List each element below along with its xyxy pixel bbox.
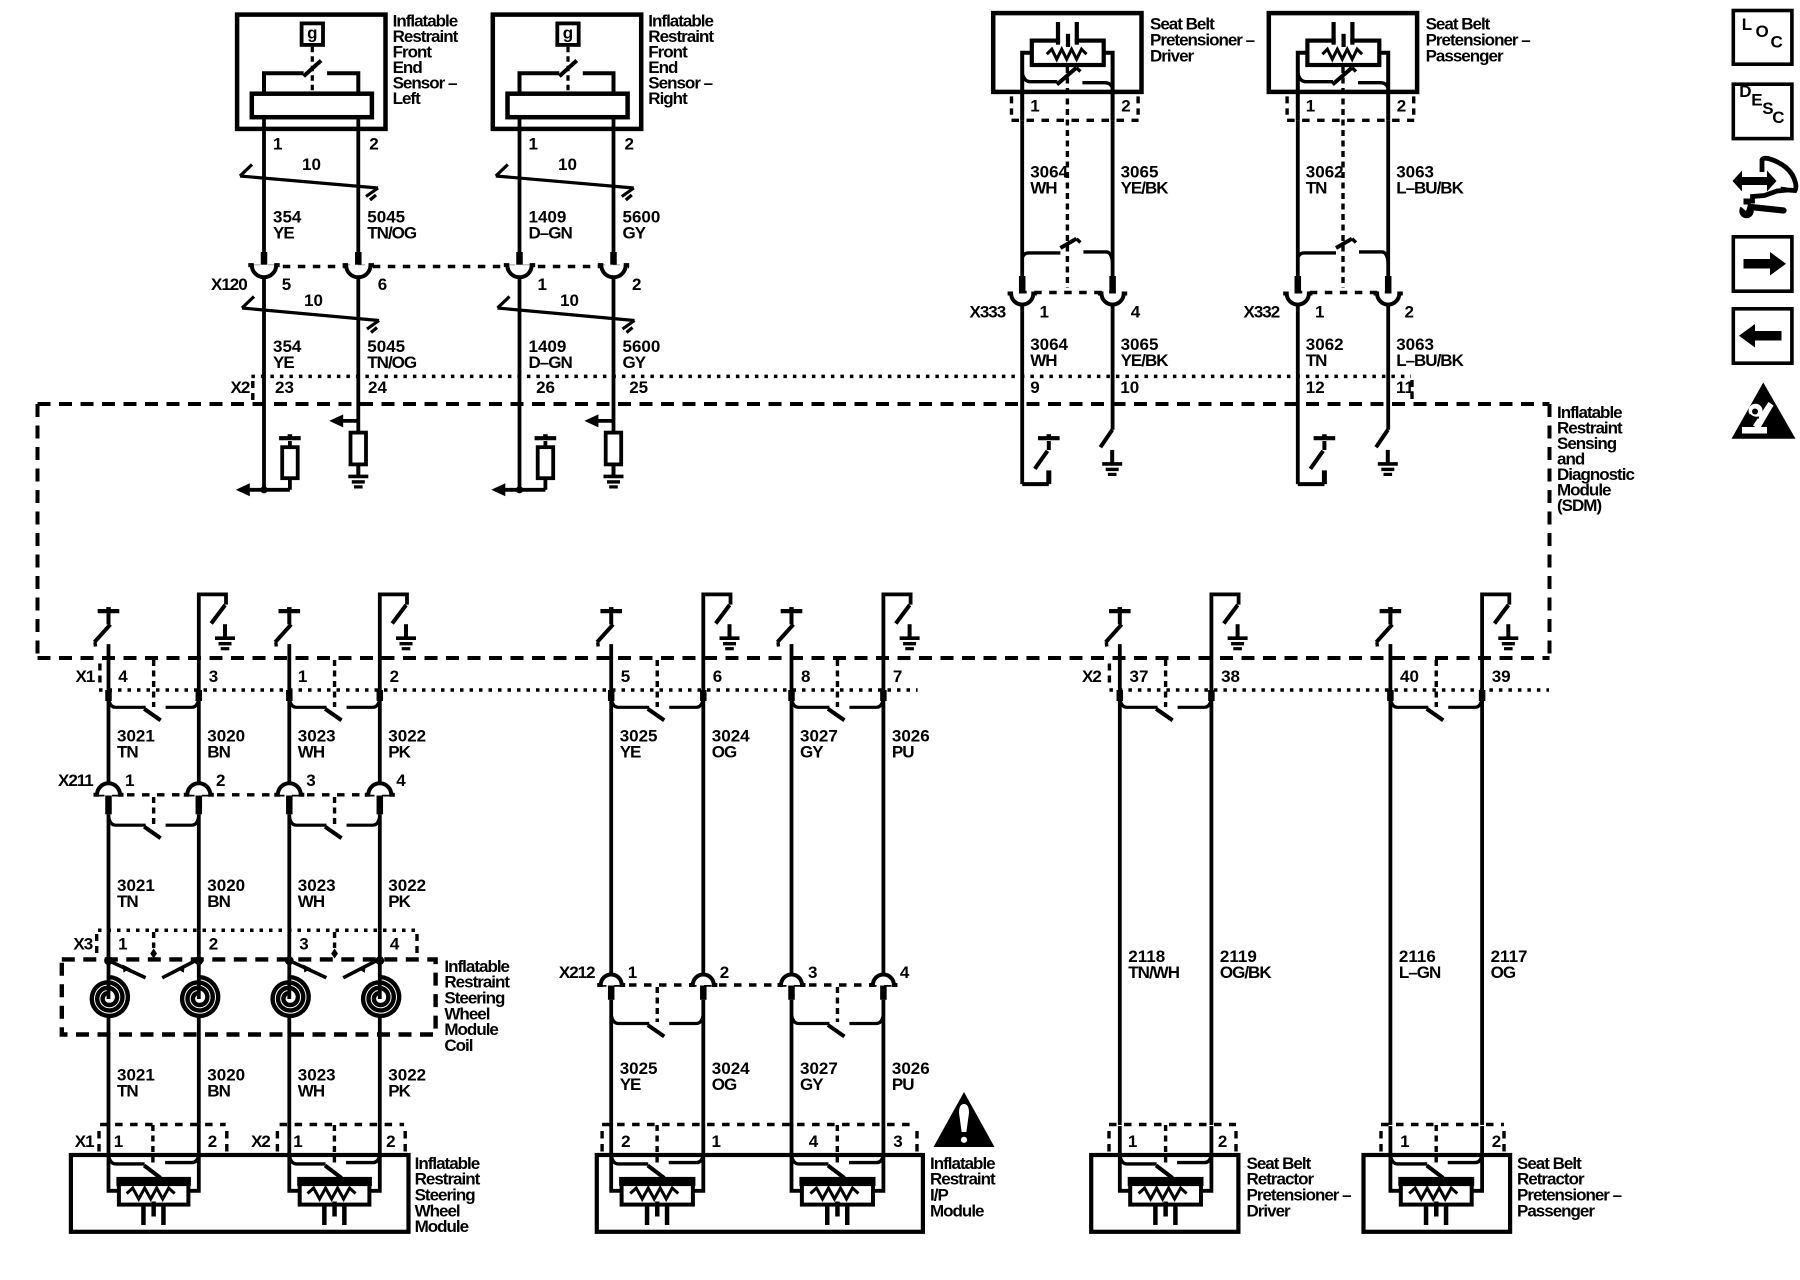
SDM sensor feed wire (odd pin): [518, 404, 522, 490]
ground symbol: [356, 464, 360, 476]
X212 male pin: [700, 986, 707, 1000]
squib igniter: [1163, 1202, 1168, 1217]
shorting bar (SDM harness connector): [611, 698, 649, 707]
seat belt pretensioner - passenger box: [1269, 13, 1417, 92]
svg-text:WH: WH: [298, 743, 325, 762]
SDM internal ground (pretensioner): [1110, 450, 1114, 464]
svg-text:10: 10: [558, 155, 577, 174]
SDM sensor feed wire (even pin): [356, 404, 360, 433]
svg-text:D–GN: D–GN: [529, 223, 573, 242]
svg-text:Driver: Driver: [1247, 1201, 1292, 1220]
svg-text:g: g: [307, 23, 317, 42]
twisted pair mark 10 (right sensor pair, upper): [496, 176, 634, 188]
sensor switch bracket (left): [264, 73, 304, 94]
shorting bar (SDM harness connector): [1390, 698, 1428, 707]
wires X211 to X3: [107, 814, 111, 930]
connector X120 male pin: [261, 252, 268, 265]
svg-text:TN: TN: [1306, 351, 1327, 370]
svg-text:GY: GY: [800, 743, 824, 762]
svg-text:WH: WH: [298, 892, 325, 911]
X211 shorting bar dashed link: [152, 797, 155, 824]
svg-text:38: 38: [1221, 667, 1240, 686]
svg-text:TN: TN: [117, 1081, 138, 1100]
pretensioner internal shorting bar (driver): [1022, 73, 1057, 82]
connector X1 dotted row (SDM bottom): [99, 688, 918, 692]
connector X211 dashed row: [97, 793, 392, 796]
svg-text:C: C: [1772, 108, 1784, 127]
squib igniter: [151, 1202, 156, 1217]
X212 male pin: [880, 986, 887, 1000]
X2 top right end tick: [1410, 380, 1413, 402]
connector X120 female cup: [598, 265, 629, 277]
module entry wires: [1389, 1126, 1393, 1156]
svg-text:O: O: [1756, 22, 1769, 41]
X212 shorting bar dashed link: [656, 987, 659, 1022]
SDM bias resistor (to ground): [351, 433, 367, 465]
wire pin1 (left sensor): [262, 117, 266, 258]
shorting bar (SDM harness connector): [1120, 698, 1158, 707]
pretensioner side brackets / wires (driver): [1022, 53, 1032, 121]
connector female cups (driver): [1008, 294, 1037, 305]
svg-text:1: 1: [1315, 302, 1324, 321]
warning triangle (I/P module): [934, 1092, 995, 1147]
svg-text:X2: X2: [251, 1132, 270, 1151]
SDM deployment low-side switch: [380, 594, 407, 690]
X211 female cup: [94, 783, 124, 795]
svg-text:11: 11: [1396, 378, 1414, 397]
svg-text:4: 4: [390, 934, 400, 953]
svg-text:2: 2: [1218, 1132, 1227, 1151]
wires to X-connector (passenger): [1296, 120, 1300, 277]
module wires to squib: [611, 1155, 622, 1191]
connector X120 female cup: [248, 265, 279, 277]
connector male pins below SDM: [105, 690, 112, 701]
svg-text:L–GN: L–GN: [1399, 963, 1441, 982]
wire pin1 (right sensor): [518, 117, 522, 258]
svg-text:2: 2: [1492, 1132, 1501, 1151]
svg-text:WH: WH: [1030, 178, 1057, 197]
SDM deployment low-side switch: [883, 594, 910, 690]
module wires to squib: [289, 1155, 300, 1191]
squib igniter: [1434, 1202, 1439, 1217]
svg-text:1: 1: [529, 134, 538, 153]
g-sensor symbol (left): [302, 23, 323, 45]
svg-text:OG/BK: OG/BK: [1220, 963, 1272, 982]
svg-text:1: 1: [628, 963, 637, 982]
SDM deployment low-side switch (pretensioner): [1111, 404, 1115, 430]
SDM deployment high-side switch (pretensioner): [1296, 404, 1300, 484]
SDM internal ground: [728, 624, 732, 638]
SDM internal ground: [1506, 624, 1510, 638]
seat belt retractor pretensioner - passenger box: [1364, 1155, 1511, 1232]
wire through coil box: [378, 930, 382, 999]
svg-text:OG: OG: [712, 743, 737, 762]
wires X212 to I/P module: [609, 1000, 613, 1126]
airbag squib resistor box: [119, 1179, 188, 1204]
inflatable restraint front end sensor - right box: [493, 15, 641, 129]
svg-text:TN: TN: [1306, 178, 1327, 197]
svg-text:4: 4: [396, 771, 406, 790]
wires SDM to X212: [609, 701, 613, 975]
coil junction dot: [194, 956, 203, 965]
shorting bar below X212: [792, 1015, 830, 1024]
svg-text:TN: TN: [117, 743, 138, 762]
g-sensor dashed actuator line (left): [311, 47, 314, 91]
svg-text:Coil: Coil: [444, 1036, 472, 1055]
svg-text:GY: GY: [623, 353, 647, 372]
svg-text:2: 2: [1121, 96, 1130, 115]
sensor switch bracket (right): [520, 73, 560, 94]
svg-text:X332: X332: [1244, 302, 1280, 321]
junction dot: [260, 486, 267, 493]
wire below X120: [262, 277, 266, 404]
connector row dashed (driver): [1019, 291, 1115, 294]
svg-text:L: L: [1742, 15, 1752, 34]
squib igniter: [332, 1202, 337, 1217]
X212 male pin: [788, 986, 795, 1000]
sensor switch blade (right): [559, 61, 577, 77]
svg-text:1: 1: [273, 134, 282, 153]
junction dot: [516, 486, 523, 493]
svg-text:C: C: [1771, 33, 1783, 52]
svg-text:2: 2: [386, 1132, 395, 1151]
svg-text:3: 3: [299, 934, 308, 953]
svg-text:YE: YE: [620, 1075, 641, 1094]
X212 female cup: [869, 975, 897, 986]
SDM deployment low-side switch: [1211, 594, 1238, 690]
svg-text:1: 1: [1030, 96, 1039, 115]
module wires to squib: [792, 1155, 803, 1191]
svg-text:2: 2: [1397, 96, 1406, 115]
svg-text:1: 1: [1040, 302, 1049, 321]
pretensioner internal shorting bar (passenger): [1298, 73, 1333, 82]
module internal shorting bar: [611, 1155, 648, 1164]
svg-text:TN/WH: TN/WH: [1128, 963, 1179, 982]
X2 top label tick: [251, 381, 254, 403]
twisted pair mark 10 (left sensor pair, upper): [240, 176, 378, 188]
SDM deployment high-side switch: [279, 609, 301, 613]
pretensioner igniter prongs (passenger): [1331, 22, 1335, 45]
pretensioner squib resistor box (driver): [1032, 41, 1104, 65]
pretensioner pin row dashed (passenger): [1287, 119, 1414, 122]
SDM bias resistor (to supply): [288, 478, 292, 490]
coil junction dot: [104, 956, 113, 965]
connector X3 dotted row: [98, 928, 417, 932]
svg-text:X211: X211: [58, 771, 93, 790]
svg-text:X2: X2: [1082, 667, 1101, 686]
SDM bias resistor (to supply): [544, 478, 548, 490]
shorting bar (SDM harness connector): [792, 698, 830, 707]
wire pin2 (right sensor): [612, 117, 616, 258]
svg-text:12: 12: [1306, 378, 1325, 397]
connector female cups (passenger): [1283, 294, 1312, 305]
module internal shorting bar: [109, 1155, 145, 1164]
wires SDM to retractor pretensioners: [1118, 701, 1122, 1125]
svg-text:X1: X1: [76, 667, 95, 686]
pretensioner pin row dashed (driver): [1012, 119, 1139, 122]
shorting bar dashed link: [333, 660, 336, 707]
sensor switch blade (left): [304, 61, 322, 77]
coil wiper arrows: [112, 962, 145, 978]
shorting bar dashed link: [152, 660, 155, 707]
svg-text:1: 1: [114, 1132, 123, 1151]
svg-text:X120: X120: [211, 275, 247, 294]
svg-text:8: 8: [801, 667, 810, 686]
connector X120 male pin: [355, 252, 362, 265]
svg-text:BN: BN: [207, 743, 230, 762]
module pin row dashed link: [836, 1125, 839, 1164]
svg-text:25: 25: [629, 378, 648, 397]
SDM deployment low-side switch: [703, 594, 730, 690]
svg-text:4: 4: [1131, 302, 1141, 321]
svg-text:2: 2: [209, 934, 218, 953]
module wires to squib: [1390, 1155, 1401, 1191]
svg-text:GY: GY: [623, 223, 647, 242]
connector male pins below SDM: [1387, 690, 1394, 701]
X211 male pin: [196, 796, 203, 815]
sensor mass rectangle (left): [252, 94, 372, 118]
SDM bias resistor (to ground): [606, 433, 622, 465]
svg-text:9: 9: [1030, 378, 1039, 397]
svg-text:YE/BK: YE/BK: [1121, 351, 1170, 370]
pretensioner side brackets / wires (passenger): [1298, 53, 1308, 121]
module entry wires: [790, 1126, 794, 1156]
connector X212 dashed row: [599, 983, 896, 986]
svg-text:5: 5: [621, 667, 630, 686]
svg-text:YE/BK: YE/BK: [1121, 178, 1170, 197]
wire to bottom connector: [287, 644, 291, 690]
icon box right arrow: [1733, 237, 1792, 291]
svg-text:37: 37: [1130, 667, 1149, 686]
svg-text:5: 5: [282, 275, 291, 294]
module entry wires: [287, 1126, 291, 1156]
svg-text:2: 2: [390, 667, 399, 686]
twisted pair mark 10 (right pair, lower): [498, 308, 635, 321]
shorting bar above connector (driver): [1022, 253, 1060, 258]
module internal shorting bar: [1120, 1155, 1157, 1164]
steering wheel module coil dashed box: [62, 959, 436, 1034]
coil link dashes and star: [333, 932, 336, 948]
pretensioner link dashed (passenger): [1341, 67, 1344, 288]
svg-text:PU: PU: [892, 1075, 914, 1094]
svg-text:2: 2: [720, 963, 729, 982]
svg-text:23: 23: [275, 378, 294, 397]
squib igniter: [835, 1202, 840, 1217]
connector X120 male pin: [516, 252, 523, 265]
svg-text:PK: PK: [388, 892, 411, 911]
shorting bar (SDM harness connector): [109, 698, 146, 707]
svg-text:YE: YE: [620, 743, 641, 762]
svg-text:1: 1: [293, 1132, 302, 1151]
svg-text:X3: X3: [73, 934, 92, 953]
icon hand double-arrow wrench: [1742, 178, 1767, 185]
SDM dashed box border: [38, 402, 1550, 406]
airbag squib resistor box: [1130, 1179, 1201, 1204]
module pin row dashed link: [151, 1125, 154, 1164]
X212 male pin: [608, 986, 615, 1000]
squib igniter: [655, 1202, 660, 1217]
connector male pins below SDM: [608, 690, 615, 701]
wire to bottom connector: [107, 644, 111, 690]
svg-text:PK: PK: [388, 743, 411, 762]
connector X120 female cup: [504, 265, 535, 277]
X211 female cup: [184, 783, 214, 795]
steering module X2 pin row: [280, 1123, 405, 1126]
connector male pins below SDM: [788, 690, 795, 701]
svg-text:2: 2: [621, 1132, 630, 1151]
module wires to squib: [109, 1155, 120, 1191]
retractor driver pin row: [1109, 1123, 1236, 1126]
shorting bar dashed link: [1164, 660, 1167, 707]
svg-text:D: D: [1739, 82, 1751, 101]
inflatable restraint steering wheel module box: [71, 1155, 409, 1232]
svg-text:Module: Module: [415, 1217, 469, 1236]
wire to bottom connector: [790, 644, 794, 690]
svg-text:YE: YE: [273, 353, 294, 372]
svg-text:26: 26: [536, 378, 555, 397]
wire through coil box: [107, 930, 111, 999]
connector X120 male pin: [610, 252, 617, 265]
clockspring coil spiral: [363, 977, 399, 1016]
shorting bar below X212: [611, 1015, 649, 1024]
svg-text:39: 39: [1492, 667, 1511, 686]
male pins into connector (driver): [1019, 276, 1026, 294]
SDM internal arrow (even pin): [588, 419, 613, 423]
SDM internal ground (pretensioner): [1386, 450, 1390, 464]
svg-text:OG: OG: [1491, 963, 1516, 982]
svg-text:Passenger: Passenger: [1426, 46, 1504, 65]
svg-text:X2: X2: [231, 378, 250, 397]
svg-text:4: 4: [900, 963, 910, 982]
twisted pair mark 10 (left pair, lower): [242, 308, 379, 321]
X212 shorting bar dashed link: [836, 987, 839, 1022]
shorting bar dashed link: [836, 660, 839, 707]
airbag squib resistor box: [622, 1179, 693, 1204]
svg-text:L–BU/BK: L–BU/BK: [1396, 178, 1464, 197]
svg-text:X212: X212: [559, 963, 595, 982]
svg-text:TN: TN: [117, 892, 138, 911]
svg-text:WH: WH: [298, 1081, 325, 1100]
shorting bar below X211: [109, 816, 146, 825]
clockspring coil spiral: [92, 977, 128, 1016]
sensor mass rectangle (right): [508, 94, 628, 118]
X2 label tick (bottom): [1108, 664, 1111, 688]
SDM deployment high-side switch: [600, 609, 622, 613]
SDM internal horizontal with arrow: [495, 488, 545, 492]
SDM internal arrow (even pin): [333, 419, 358, 423]
SDM deployment high-side switch: [781, 609, 803, 613]
svg-text:E: E: [1751, 90, 1762, 109]
wire to bottom connector: [609, 644, 613, 690]
svg-text:10: 10: [560, 291, 579, 310]
steering module X1 pin row: [100, 1123, 226, 1126]
svg-text:10: 10: [1120, 378, 1139, 397]
svg-text:OG: OG: [712, 1075, 737, 1094]
svg-text:2: 2: [216, 771, 225, 790]
module internal shorting bar: [792, 1155, 829, 1164]
module wires to squib: [1120, 1155, 1131, 1191]
I/P module pin row: [602, 1123, 917, 1126]
svg-text:1: 1: [118, 934, 127, 953]
SDM internal ground: [908, 624, 912, 638]
connector X120 female cup: [343, 265, 374, 277]
svg-text:(SDM): (SDM): [1557, 496, 1601, 515]
seat belt retractor pretensioner - driver box: [1091, 1155, 1238, 1232]
SDM deployment high-side switch: [98, 609, 120, 613]
X211 female cup: [274, 783, 304, 795]
svg-text:3: 3: [893, 1132, 902, 1151]
X212 female cup: [597, 975, 625, 986]
svg-text:BN: BN: [207, 892, 230, 911]
retractor passenger pin row: [1381, 1123, 1504, 1126]
module internal shorting bar: [289, 1155, 325, 1164]
pretensioner squib resistor box (passenger): [1307, 41, 1379, 65]
X3 label tick: [95, 934, 98, 956]
SDM sensor feed wire (even pin): [612, 404, 616, 433]
SDM sensor feed wire (odd pin): [262, 404, 266, 490]
SDM deployment low-side switch: [199, 594, 226, 690]
SDM internal ground: [223, 624, 227, 638]
X211 male pin: [286, 796, 293, 815]
wire below X120: [518, 277, 522, 404]
wire through coil box: [287, 930, 291, 999]
wire to bottom connector: [1118, 644, 1122, 690]
svg-text:10: 10: [304, 291, 323, 310]
svg-text:24: 24: [368, 378, 387, 397]
male pins into connector (passenger): [1295, 276, 1302, 294]
module entry wires: [609, 1126, 613, 1156]
svg-text:1: 1: [712, 1132, 721, 1151]
svg-text:Left: Left: [393, 89, 422, 108]
SDM deployment low-side switch (pretensioner): [1386, 404, 1390, 430]
svg-text:D–GN: D–GN: [529, 353, 573, 372]
wires below connector (passenger): [1296, 305, 1300, 404]
connector X2 dotted row (SDM bottom right): [1109, 688, 1549, 692]
X211 female cup: [365, 783, 395, 795]
wire to bottom connector: [1389, 644, 1393, 690]
module internal shorting bar: [1390, 1155, 1427, 1164]
X211 male pin: [105, 796, 112, 815]
X1 label tick: [98, 664, 101, 688]
inflatable restraint I/P module box: [597, 1155, 923, 1232]
SDM internal ground: [1236, 624, 1240, 638]
svg-text:2: 2: [369, 134, 378, 153]
wire through coil box: [197, 930, 201, 999]
X212 female cup: [689, 975, 717, 986]
svg-text:BN: BN: [207, 1081, 230, 1100]
coil junction dot: [375, 956, 384, 965]
svg-text:1: 1: [298, 667, 307, 686]
coil junction dot: [285, 956, 294, 965]
X211 male pin: [377, 796, 384, 815]
inflatable restraint front end sensor - left box: [237, 15, 385, 129]
wires to X-connector (driver): [1020, 120, 1024, 277]
svg-text:2: 2: [208, 1132, 217, 1151]
coil link dashes and star: [152, 932, 155, 948]
module pin row dashed link: [1434, 1125, 1437, 1164]
connector male pins below SDM: [1117, 690, 1124, 701]
airbag squib resistor box: [300, 1179, 370, 1204]
icon box DESC: [1733, 84, 1792, 138]
clockspring coil spiral: [273, 977, 309, 1016]
svg-text:1: 1: [538, 275, 547, 294]
X212 female cup: [778, 975, 806, 986]
pretensioner link dashed (driver): [1066, 67, 1069, 288]
SDM deployment high-side switch: [1380, 609, 1402, 613]
svg-text:4: 4: [809, 1132, 819, 1151]
svg-text:PU: PU: [892, 743, 914, 762]
svg-text:GY: GY: [800, 1075, 824, 1094]
